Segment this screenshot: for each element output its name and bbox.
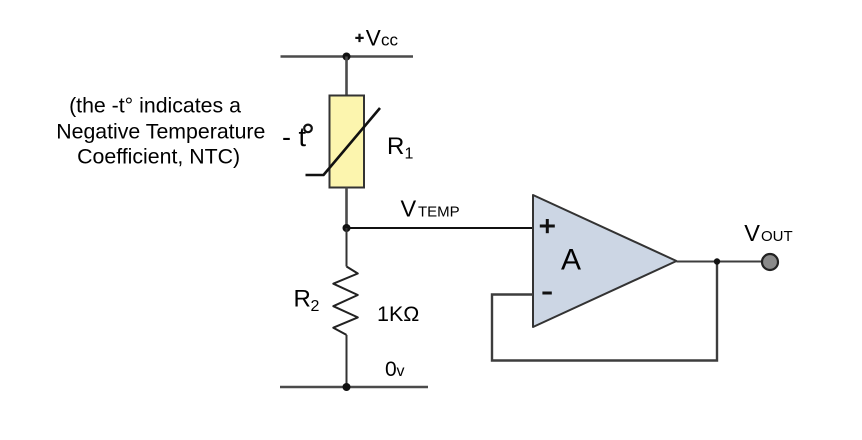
label R1 <box>387 133 414 163</box>
resistor R2 <box>333 267 358 335</box>
label +Vcc <box>355 26 398 51</box>
node VTEMP junction dot <box>343 224 351 232</box>
junction dot at output node <box>714 258 720 264</box>
label VTEMP <box>401 195 460 221</box>
junction dot at +Vcc node <box>343 53 351 61</box>
wire VTEMP to op-amp plus input <box>347 227 534 229</box>
label 0v <box>385 358 405 381</box>
power rail +Vcc <box>281 55 414 58</box>
svg-text:(the -t° indicates a: (the -t° indicates a <box>69 93 241 117</box>
svg-text:Coefficient, NTC): Coefficient, NTC) <box>77 145 240 169</box>
op-amp minus input marker <box>542 292 551 295</box>
wire node VTEMP to resistor R2 <box>346 228 348 267</box>
svg-text:V: V <box>744 220 760 246</box>
svg-text:V: V <box>366 26 381 51</box>
annotation NTC note <box>56 93 265 168</box>
label -t deg <box>282 122 312 152</box>
svg-text:- t: - t <box>282 122 306 152</box>
junction dot at ground <box>343 383 351 391</box>
op-amp plus input marker <box>540 219 555 233</box>
svg-text:V: V <box>401 195 417 221</box>
wire feedback loop output to minus input <box>492 262 717 361</box>
ground rail 0v <box>280 386 428 389</box>
op-amp U1 body <box>533 195 677 327</box>
svg-text:1: 1 <box>405 146 414 163</box>
svg-text:TEMP: TEMP <box>418 203 460 220</box>
svg-text:0: 0 <box>385 358 397 381</box>
terminal VOUT <box>762 254 778 270</box>
svg-text:R: R <box>387 133 404 160</box>
label VOUT <box>744 220 792 246</box>
thermistor R1 <box>306 96 381 188</box>
svg-text:1KΩ: 1KΩ <box>377 302 419 326</box>
label R2 <box>294 285 320 315</box>
svg-text:OUT: OUT <box>761 228 793 245</box>
wire resistor R2 to ground rail <box>346 335 348 387</box>
svg-text:Negative Temperature: Negative Temperature <box>56 120 265 144</box>
svg-text:cc: cc <box>381 31 399 50</box>
wire thermistor to node VTEMP <box>345 188 348 229</box>
svg-text:R: R <box>294 285 311 312</box>
svg-text:A: A <box>561 244 581 277</box>
svg-text:v: v <box>397 363 405 380</box>
svg-text:2: 2 <box>311 298 320 315</box>
wire from +Vcc rail to thermistor <box>345 57 348 97</box>
wire op-amp output <box>677 261 763 263</box>
